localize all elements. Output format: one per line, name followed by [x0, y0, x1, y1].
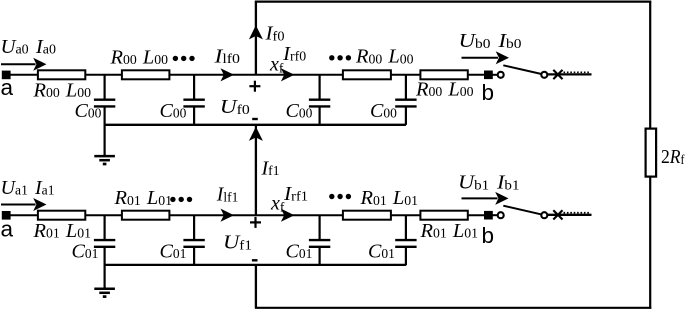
plus sign Uf1: [250, 217, 261, 228]
breaker (bottom): wire square to contact: [492, 214, 498, 216]
wire: bottom main line a-b: [10, 214, 485, 216]
wire: bottom shunt rail: [105, 264, 406, 266]
wire: fault link vertical If1: [255, 125, 257, 215]
ground (top): [94, 125, 115, 164]
wire: right edge lower segment: [649, 176, 651, 309]
resistor-inductor R00 L00 box 2: [122, 70, 169, 79]
node a terminal square (top): [2, 71, 11, 80]
capacitor C00 #3: [309, 75, 330, 125]
current arrow Ia0: [1, 58, 47, 71]
breaker (top): contact circle 2: [541, 72, 547, 78]
fault current arrowhead If0: [249, 25, 263, 39]
capacitor C00 #2: [183, 75, 204, 125]
ground (bottom): [94, 265, 115, 297]
resistor-inductor R01 L01 box 3: [343, 211, 391, 220]
breaker (top): contact circle 1: [498, 72, 504, 78]
plus sign Uf0: [249, 81, 260, 92]
svg-text:b: b: [482, 80, 495, 105]
node b terminal square (top): [484, 71, 493, 80]
current arrow Ib1: [462, 192, 509, 205]
breaker (bottom): blade: [503, 206, 541, 215]
capacitor C01 #1: [94, 215, 115, 265]
resistor 2Rf box: [646, 129, 657, 177]
breaker (top): solid tail wire: [547, 73, 591, 75]
resistor-inductor R01 L01 box 2: [122, 211, 169, 220]
current arrow Ib0: [462, 51, 510, 64]
svg-text:a: a: [1, 75, 14, 100]
ellipsis dots (top left): [173, 56, 195, 61]
ellipsis dots (bottom left): [170, 197, 192, 202]
fault current arrowhead If1: [249, 127, 263, 141]
current arrowhead Ilf1: [221, 209, 235, 222]
ellipsis dots (top right): [329, 55, 351, 60]
resistor-inductor R00 L00 box 4: [420, 70, 467, 79]
breaker (top): blade: [503, 65, 541, 74]
capacitor C01 #2: [183, 215, 204, 265]
resistor-inductor R01 L01 box 4: [420, 211, 467, 220]
node b terminal square (bottom): [484, 211, 493, 220]
resistor-inductor R00 L00 box 1: [38, 70, 85, 79]
breaker (bottom): dashed overlay above tail: [564, 212, 591, 214]
capacitor C01 #4: [395, 215, 416, 265]
current arrowhead Irf1: [281, 209, 295, 222]
current arrowhead Irf0: [281, 68, 295, 81]
breaker (top): dashed overlay above tail: [564, 71, 591, 73]
breaker (bottom): contact circle 1: [498, 212, 504, 218]
breaker (bottom): fault X mark: [553, 210, 562, 219]
minus sign Uf0: [252, 118, 258, 120]
breaker (bottom): solid tail wire: [547, 214, 591, 216]
current arrowhead Ilf0: [221, 68, 235, 81]
wire: top shunt rail: [105, 124, 406, 126]
capacitor C00 #1: [94, 75, 115, 125]
node a terminal square (bottom): [2, 211, 11, 220]
resistor-inductor R01 L01 box 1: [38, 211, 85, 220]
resistor-inductor R00 L00 box 3: [343, 70, 391, 79]
wire: fault vertical to bottom boundary: [255, 265, 257, 308]
capacitor C00 #4: [395, 75, 416, 125]
wire: top main line a-b: [10, 74, 485, 76]
breaker (bottom): contact circle 2: [541, 212, 547, 218]
breaker (top): wire square to contact: [492, 74, 498, 76]
minus sign Uf1: [252, 259, 258, 261]
capacitor C01 #3: [309, 215, 330, 265]
svg-text:b: b: [482, 223, 495, 248]
svg-text:a: a: [1, 217, 14, 242]
ellipsis dots (bottom right): [329, 194, 351, 199]
wire: bottom boundary: [255, 307, 651, 309]
breaker (top): fault X mark: [553, 70, 562, 79]
wire: right edge upper segment: [649, 2, 651, 130]
current arrow Ia1: [1, 198, 47, 211]
wire: top boundary to right edge: [255, 1, 652, 3]
wire: fault vertical If0: [255, 2, 257, 75]
